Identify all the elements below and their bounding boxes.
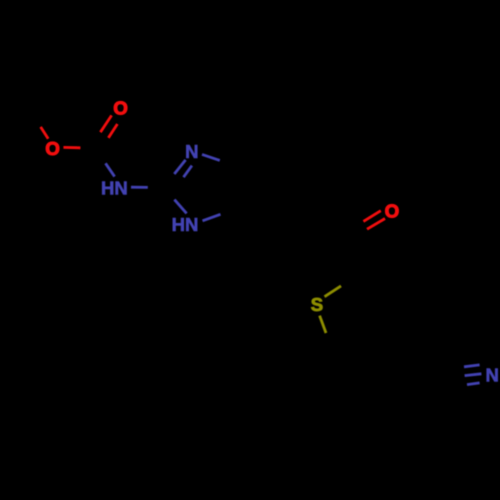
nitrile C#N line 2 (axis) bbox=[465, 374, 482, 376]
bond S-C5 thiophene (S half) bbox=[320, 316, 326, 333]
bond O-C carbamate (O half) bbox=[63, 146, 80, 149]
svg-text:HN: HN bbox=[172, 214, 199, 235]
svg-text:O: O bbox=[385, 200, 399, 221]
nitrile C#N line 1 bbox=[464, 365, 480, 367]
bond C-N carbamate (N half) bbox=[106, 163, 115, 176]
C2=N3 inner line bbox=[184, 166, 192, 178]
bond N3-C3a (N half) bbox=[202, 154, 220, 160]
svg-text:HN: HN bbox=[101, 177, 128, 198]
nitrile C#N line 3 bbox=[467, 383, 480, 385]
bond HN-C2 imidazole (N half) bbox=[131, 186, 148, 189]
svg-text:S: S bbox=[311, 294, 323, 315]
svg-text:O: O bbox=[113, 98, 127, 119]
svg-text:O: O bbox=[45, 138, 59, 159]
ketone C=O line 2 bbox=[367, 219, 385, 230]
C2=N3 outer line (N half) bbox=[174, 160, 185, 174]
ketone C=O line 1 bbox=[363, 211, 380, 222]
carbamate C=O line 1 bbox=[100, 115, 111, 132]
bond S-C2 thiophene (S half) bbox=[325, 286, 342, 297]
carbamate C=O line 2 bbox=[108, 124, 117, 138]
svg-text:N: N bbox=[486, 364, 499, 385]
svg-text:N: N bbox=[185, 141, 198, 162]
bond N1-C7a (N half) bbox=[203, 214, 221, 221]
bond C2-N1 (N half) bbox=[174, 200, 186, 214]
bond CH3-O (O half) bbox=[41, 127, 49, 139]
